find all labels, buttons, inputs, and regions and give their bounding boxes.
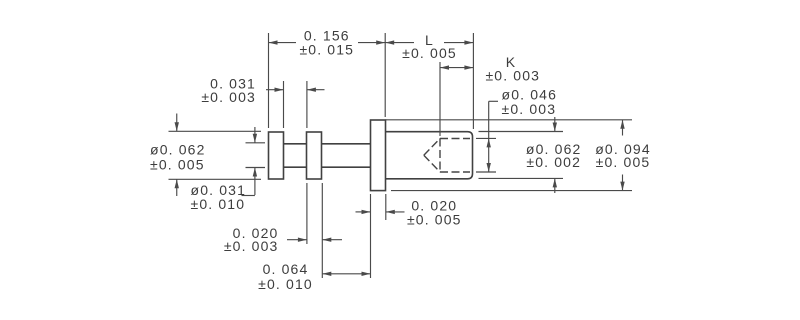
svg-text:±0. 002: ±0. 002 bbox=[526, 154, 581, 170]
svg-text:±0. 003: ±0. 003 bbox=[502, 101, 557, 117]
svg-text:±0. 005: ±0. 005 bbox=[596, 154, 651, 170]
svg-text:±0. 003: ±0. 003 bbox=[485, 67, 540, 83]
svg-text:±0. 003: ±0. 003 bbox=[201, 89, 256, 105]
svg-text:±0. 015: ±0. 015 bbox=[299, 41, 354, 57]
svg-text:±0. 005: ±0. 005 bbox=[407, 212, 462, 228]
svg-text:±0. 010: ±0. 010 bbox=[258, 276, 313, 292]
svg-text:ø0. 062: ø0. 062 bbox=[150, 141, 206, 157]
svg-text:±0. 005: ±0. 005 bbox=[402, 45, 457, 61]
svg-text:0. 064: 0. 064 bbox=[263, 261, 309, 277]
svg-text:±0. 010: ±0. 010 bbox=[191, 196, 246, 212]
svg-text:±0. 003: ±0. 003 bbox=[224, 238, 279, 254]
svg-text:±0. 005: ±0. 005 bbox=[150, 156, 205, 172]
